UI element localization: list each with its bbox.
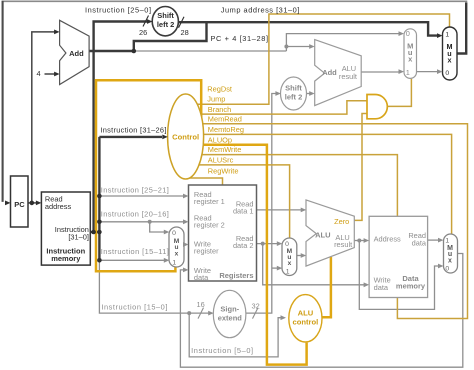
arrow: into branch adder top <box>309 44 315 49</box>
wire: Instruction[31-26] into Control <box>99 136 162 138</box>
svg-text:Shift: Shift <box>157 11 174 20</box>
arrow: constant 4 into adder <box>54 72 60 77</box>
arrow: into read register 2 <box>183 219 189 224</box>
svg-text:register 2: register 2 <box>194 220 225 229</box>
node: PC+4 jump tap junction <box>132 49 137 54</box>
svg-text:Zero: Zero <box>334 217 349 226</box>
svg-text:memory: memory <box>396 282 426 291</box>
svg-text:Instruction [25–21]: Instruction [25–21] <box>101 186 169 195</box>
wire: RegDst mux output to write register <box>183 244 186 246</box>
svg-text:Shift: Shift <box>285 84 302 93</box>
node: PC+4 branch mux junction <box>284 45 288 49</box>
svg-text:0: 0 <box>445 70 449 77</box>
wire: ALU result to data memory address <box>354 240 365 242</box>
svg-text:28: 28 <box>181 28 189 37</box>
svg-text:x: x <box>448 56 452 65</box>
arrow: into ALU bottom input <box>301 253 307 258</box>
wire: constant 4 into adder <box>45 73 55 75</box>
wire: ALU result wrap-around to MemtoReg mux input 0 <box>359 241 438 310</box>
control unit oval <box>168 94 204 179</box>
wire: RegDst control signal to RegDst mux select <box>96 80 201 271</box>
wire: left edge riser to PC input <box>2 1 4 202</box>
arrow: into ALUSrc mux input 1 <box>277 266 283 271</box>
wire: PC+4 line to branch adder and branch mux <box>135 50 287 52</box>
wire: MemWrite control signal to data memory <box>186 155 397 216</box>
wire: PC output riser to PC+4 adder top input <box>32 32 55 203</box>
svg-text:data: data <box>412 238 427 247</box>
wire: AND gate output to branch mux select <box>387 79 412 107</box>
arrow: into ALUSrc mux input 0 <box>277 241 283 246</box>
svg-text:Add: Add <box>322 68 337 77</box>
wire: Instruction[15-0] to sign-extend <box>99 260 208 313</box>
wire: read data 2 branch to data memory write data <box>263 244 364 285</box>
wire: shift-left-2 output to branch adder <box>307 93 310 95</box>
arrow: into branch mux input 0 <box>399 31 405 36</box>
svg-text:x: x <box>175 250 179 257</box>
node: instruction [25-21] junction <box>97 194 102 199</box>
arrow: into read register 1 <box>183 194 189 199</box>
arrow: into branch mux input 1 <box>399 69 405 74</box>
slash: 28-bit width mark <box>179 17 185 28</box>
adder Add (branch target) <box>315 40 362 106</box>
slash: 32-bit width mark <box>253 308 259 319</box>
wire: PC+4 branch up to branch mux input 0 <box>286 34 398 51</box>
arrow: into shift left 2 (jump) <box>147 19 153 24</box>
arrow: into RegDst mux input 1 <box>164 258 170 263</box>
svg-text:Instruction [5–0]: Instruction [5–0] <box>191 346 253 355</box>
arrow: into ALU top input <box>301 208 307 213</box>
arrow: jump address into jump mux <box>437 33 443 38</box>
wire: Instruction[25-0] up-left to shift-left-2 <box>94 22 147 233</box>
svg-text:1: 1 <box>445 237 449 244</box>
svg-text:control: control <box>293 317 319 326</box>
svg-text:RegDst: RegDst <box>207 84 232 93</box>
svg-text:data: data <box>194 273 209 282</box>
svg-text:Instruction [20–16]: Instruction [20–16] <box>101 210 169 219</box>
node: read data 2 branch junction <box>261 242 265 246</box>
wire: ALU control output to ALU operation input <box>321 257 331 317</box>
svg-text:Branch: Branch <box>208 105 231 114</box>
svg-text:result: result <box>339 72 357 81</box>
wire: RegWrite control signal to registers <box>186 178 223 185</box>
wire: write-back loop to registers write data <box>180 254 462 368</box>
registers block <box>189 185 257 281</box>
slash: 16-bit width mark <box>198 308 204 319</box>
wire: branch adder ALU result to branch mux input 1 <box>361 71 399 73</box>
node: instruction [5-0] branch junction <box>187 311 191 315</box>
arrow: into sign-extend <box>208 311 214 316</box>
svg-text:ALUSrc: ALUSrc <box>208 156 234 165</box>
svg-text:ALU: ALU <box>298 308 314 317</box>
svg-text:register: register <box>194 247 219 256</box>
svg-text:32: 32 <box>252 302 260 311</box>
svg-text:Instruction [25–0]: Instruction [25–0] <box>85 5 151 14</box>
svg-text:left 2: left 2 <box>285 93 303 102</box>
arrow: into control unit <box>162 135 168 140</box>
adder Add (PC+4) <box>60 20 90 84</box>
svg-text:Jump address [31–0]: Jump address [31–0] <box>221 6 299 15</box>
wire: MemtoReg control signal to MemtoReg mux select <box>186 134 452 234</box>
instruction memory <box>41 192 90 265</box>
register PC <box>11 176 29 227</box>
wire: PC+4 adder output (bold to jump tap dot) <box>89 50 135 52</box>
wire: Branch control signal to AND gate <box>186 101 368 114</box>
svg-text:MemWrite: MemWrite <box>208 145 242 154</box>
svg-text:ALUOp: ALUOp <box>208 135 232 144</box>
wire: ALUSrc mux output to ALU <box>297 255 301 257</box>
wire: PC+4 branch to branch adder top input <box>286 46 309 48</box>
wire: branch mux output to jump mux input 0 <box>417 71 438 73</box>
node: PC output junction <box>30 201 35 206</box>
arrow: into MemtoReg mux input 0 <box>438 264 444 269</box>
svg-text:1: 1 <box>172 260 176 267</box>
arrow: into shift left 2 (branch) <box>275 91 281 96</box>
svg-text:4: 4 <box>37 69 41 78</box>
ALU control unit <box>289 295 322 342</box>
arrow: into MemtoReg mux input 1 <box>438 238 444 243</box>
svg-text:Sign-: Sign- <box>220 305 239 314</box>
svg-text:address: address <box>45 202 72 211</box>
wire: ALUSrc control signal to ALUSrc mux select <box>186 165 290 238</box>
wire: instruction output stub from instruction memory <box>90 231 99 233</box>
arrow: into data memory write data <box>364 282 370 287</box>
mux jump <box>443 27 458 80</box>
wire: jump address line to jump mux input 1 <box>178 22 438 35</box>
wire: PC+4[31-28] tap up to jump address line <box>134 22 207 51</box>
svg-text:Add: Add <box>69 49 84 58</box>
arrow: into branch adder bottom <box>309 91 315 96</box>
svg-text:RegWrite: RegWrite <box>208 167 239 176</box>
shift left 2 (jump address) <box>152 7 178 36</box>
svg-text:Instruction [31–26]: Instruction [31–26] <box>100 125 166 134</box>
svg-text:1: 1 <box>445 31 449 38</box>
svg-text:ALU: ALU <box>315 231 330 240</box>
svg-text:extend: extend <box>218 314 243 323</box>
mux branch (PCSrc) <box>404 29 417 79</box>
svg-text:1: 1 <box>406 68 410 77</box>
wire: MemRead control signal to data memory <box>186 124 468 319</box>
svg-text:left 2: left 2 <box>157 20 175 29</box>
node: ALU result junction <box>357 239 361 243</box>
svg-text:Control: Control <box>172 133 199 142</box>
wire: sign-extend branch to ALUSrc mux input 1 <box>272 267 278 269</box>
svg-text:MemRead: MemRead <box>208 115 242 124</box>
wire: Instruction[15-11] to RegDst mux input 1 <box>99 259 164 261</box>
arrow: into jump mux input 0 <box>437 69 443 74</box>
svg-text:Jump: Jump <box>207 95 225 104</box>
svg-text:x: x <box>288 260 292 267</box>
svg-text:Address: Address <box>374 234 401 243</box>
svg-text:0: 0 <box>172 230 176 237</box>
arrow: into adder top input <box>54 30 60 35</box>
sign-extend unit <box>213 290 246 337</box>
slash: 26-bit width mark <box>143 16 149 27</box>
node: instruction [20-16] junction <box>97 220 102 225</box>
svg-text:0: 0 <box>445 266 449 273</box>
ALU <box>306 200 354 266</box>
svg-text:Instruction [15–0]: Instruction [15–0] <box>101 303 167 312</box>
svg-text:memory: memory <box>51 254 81 263</box>
wire: top edge return wire <box>2 0 468 2</box>
wire: read data 1 to ALU <box>257 209 302 211</box>
wire: ALUOp control signal to ALU control <box>186 145 307 365</box>
svg-text:MemtoReg: MemtoReg <box>208 125 244 134</box>
svg-text:data 2: data 2 <box>233 241 254 250</box>
svg-text:26: 26 <box>139 28 147 37</box>
mux ALUSrc <box>282 238 297 276</box>
svg-text:PC: PC <box>14 200 25 209</box>
wire: jump mux output to right edge riser <box>457 2 466 53</box>
arrow: into write register <box>183 242 189 247</box>
svg-text:data: data <box>374 283 389 292</box>
wire: data memory read data to MemtoReg mux input 1 <box>428 239 439 241</box>
arrow: into write data (registers) <box>183 268 189 273</box>
svg-text:16: 16 <box>197 300 205 309</box>
wire: sign-extend output riser to shift-left-2 <box>245 94 276 314</box>
wire: PC output to instruction memory read address <box>28 202 37 204</box>
node: instruction [20-16] mux branch junction <box>148 220 152 224</box>
wire: Jump control signal to jump mux select <box>186 14 450 104</box>
wire: read data 2 to ALUSrc mux input 0 <box>257 243 278 245</box>
arrow: into RegDst mux input 0 <box>164 230 170 235</box>
wire: Instruction[25-21] to read register 1 <box>99 195 183 197</box>
arrow: into read address <box>36 201 42 206</box>
wire: Instruction[20-16] to read register 2 <box>99 221 183 223</box>
arrow: into data memory address <box>364 238 370 243</box>
node: instruction [15-11] junction <box>97 258 102 263</box>
wire: instruction bus vertical <box>98 137 100 260</box>
wire: Instruction[20-16] branch down to RegDst mux input 0 <box>150 222 164 232</box>
svg-text:data 1: data 1 <box>233 207 254 216</box>
svg-text:register 1: register 1 <box>194 197 225 206</box>
shift left 2 (branch) <box>281 77 307 110</box>
arrow: into ALU control <box>281 315 287 320</box>
svg-text:Registers: Registers <box>219 271 253 280</box>
svg-text:Instruction [15–11]: Instruction [15–11] <box>101 247 169 256</box>
svg-text:0: 0 <box>406 29 410 38</box>
svg-text:result: result <box>334 240 352 249</box>
svg-text:x: x <box>448 257 452 264</box>
svg-text:1: 1 <box>286 269 290 276</box>
wire: Zero flag to AND gate <box>352 114 368 221</box>
svg-text:PC + 4 [31–28]: PC + 4 [31–28] <box>211 34 269 43</box>
node: instruction bus junction right <box>97 230 102 235</box>
svg-text:[31–0]: [31–0] <box>68 232 89 241</box>
mux MemtoReg <box>444 234 458 273</box>
data memory <box>369 216 428 297</box>
AND gate (branch) <box>367 95 387 119</box>
arrow: into PC <box>5 201 11 206</box>
wire: Instruction[5-0] to ALU control <box>189 313 281 357</box>
node: instruction bus junction left <box>91 230 96 235</box>
mux RegDst <box>169 227 184 267</box>
